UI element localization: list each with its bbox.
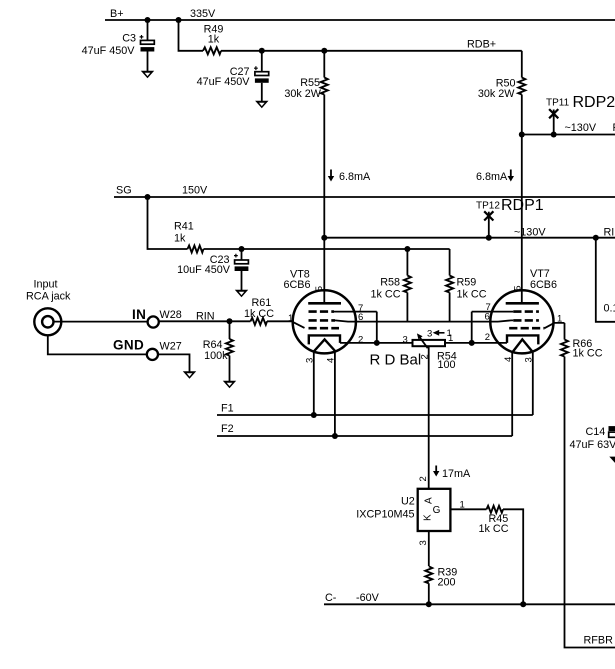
svg-text:1k CC: 1k CC (479, 523, 509, 535)
VT7 pin 7 wire (472, 311, 514, 313)
tube VT8 (293, 290, 356, 353)
svg-text:1k: 1k (208, 33, 220, 45)
VT8 heater (313, 339, 336, 352)
resistor R61 (251, 318, 268, 325)
VT8 grid row 1 (pin 7) (309, 310, 335, 313)
svg-text:3: 3 (523, 357, 534, 362)
junction node R45/C- (520, 601, 526, 607)
wire RIN to R64 (229, 321, 231, 339)
ground (C3) (141, 71, 154, 79)
VT7 heater (513, 339, 533, 352)
svg-text:SG: SG (116, 185, 132, 197)
junction node VT8 cathode (374, 340, 380, 346)
wire screen feed to R59 (449, 249, 451, 276)
svg-text:5: 5 (513, 286, 524, 291)
VT8 pin 6 wire (335, 320, 356, 321)
R54 wiper wire down (428, 347, 430, 489)
wire RDB+ to R55 (323, 51, 325, 78)
junction node VT8 plate/RDP1 (321, 235, 327, 241)
svg-text:TP12: TP12 (476, 201, 500, 212)
current arrow 6.8mA (left) (328, 170, 334, 182)
junction node R41/SG (145, 194, 151, 200)
resistor R39 (425, 566, 432, 583)
wire R66 down to RFBR (565, 357, 615, 648)
wire IN to R61 (159, 320, 251, 322)
junction node VT7 cathode (469, 340, 475, 346)
svg-text:RDP2: RDP2 (573, 94, 615, 111)
test point TP12 (484, 211, 493, 220)
svg-text:3: 3 (403, 335, 408, 346)
R54 rotation annotation 3 arrow 1 (427, 328, 452, 340)
resistor R66 (561, 340, 568, 357)
ground (C14, clipped) (609, 457, 615, 464)
junction node TP12/RDP1 (486, 235, 492, 241)
wire R64 to ground (229, 356, 231, 382)
junction node TP11/RDP2 (551, 132, 557, 138)
svg-text:W27: W27 (160, 341, 182, 353)
VT7 pin 1 exit (545, 323, 565, 328)
junction node R39/C- (426, 601, 432, 607)
svg-text:5: 5 (314, 286, 325, 291)
svg-text:TP11: TP11 (546, 98, 570, 109)
VT7 plate bar (506, 302, 539, 305)
capacitor C3 (140, 35, 155, 52)
VT8 pin 4 wire (334, 352, 336, 436)
svg-text:6CB6: 6CB6 (284, 279, 311, 291)
VT8 cathode (309, 335, 340, 344)
VT7 pin 2 wire (472, 342, 507, 344)
svg-text:6.8mA: 6.8mA (339, 171, 371, 183)
svg-text:R59: R59 (457, 277, 477, 289)
VT7 grid row 1 (pin 7) (513, 310, 539, 313)
resistor R66 wire from VT7 pin1 (564, 323, 566, 340)
resistor R59 (446, 276, 453, 293)
svg-text:1k CC: 1k CC (573, 348, 603, 360)
svg-text:17mA: 17mA (442, 468, 471, 480)
junction node C3/B+ (145, 17, 151, 23)
connector W28 (IN) (148, 316, 159, 327)
resistor R45 (487, 506, 504, 513)
svg-text:30k 2W: 30k 2W (284, 88, 321, 100)
wire RDB+ to R50 (521, 51, 523, 78)
junction node R49/B+ (176, 17, 182, 23)
VT7 grid row 2 (pin 6) (513, 319, 539, 322)
svg-text:RFBR: RFBR (584, 635, 614, 647)
tube VT7 (490, 290, 553, 353)
svg-text:3: 3 (418, 540, 429, 545)
VT8 pin 5 wire (plate) (323, 238, 325, 304)
capacitor C23 (234, 254, 248, 271)
svg-text:3: 3 (427, 329, 432, 340)
IC U2 body (418, 489, 451, 531)
VT7 pin 3 wire (532, 352, 534, 415)
potentiometer R54 body (413, 340, 446, 346)
wire SG to R41 (148, 197, 188, 249)
svg-text:1: 1 (288, 313, 293, 324)
svg-text:Input: Input (34, 279, 58, 291)
U2 pin 1 wire (gate) (450, 508, 486, 510)
svg-text:C3: C3 (122, 33, 136, 45)
svg-text:2: 2 (485, 332, 490, 343)
wire R49 to RDB+ rail (221, 50, 262, 52)
wire R50 to VT7 plate (521, 95, 523, 304)
svg-text:K: K (423, 514, 434, 521)
svg-text:47uF 450V: 47uF 450V (82, 45, 136, 57)
resistor R49 (203, 47, 221, 54)
capacitor C14 (clipped at edge) (609, 426, 615, 437)
resistor R58 (404, 276, 411, 293)
wire RDB+ to C27 (261, 51, 263, 72)
svg-text:R58: R58 (380, 277, 400, 289)
svg-text:R D Bal: R D Bal (370, 352, 422, 369)
svg-text:-60V: -60V (356, 592, 380, 604)
junction node R64/RIN (227, 318, 233, 324)
svg-text:1: 1 (447, 328, 452, 339)
wire RDP1 right branch down (596, 238, 615, 322)
U2 pin 3 wire (cathode) (428, 531, 430, 566)
test point TP11 (549, 109, 558, 118)
VT7 pin 7 drop wire (471, 312, 473, 343)
svg-text:6CB6: 6CB6 (530, 279, 557, 291)
ground (GND wire) (183, 371, 196, 379)
wire C23 top (241, 249, 243, 260)
RDP1 plate wire (324, 237, 615, 239)
wire screen feed to R58 (406, 249, 408, 276)
svg-text:C-: C- (325, 592, 337, 604)
ground (R64) (223, 381, 236, 389)
svg-text:1k CC: 1k CC (371, 289, 401, 301)
current arrow 17mA (433, 466, 439, 477)
svg-text:1: 1 (557, 313, 562, 324)
wire B+ to C3 (147, 20, 149, 40)
wire R54 to VT7 cathode node (445, 342, 472, 344)
VT8 grid row 3 (pin 1) (309, 327, 340, 330)
C- rail wire (324, 603, 615, 605)
VT8 pin 3 wire (313, 352, 315, 415)
svg-text:2: 2 (418, 476, 429, 481)
wire R59 to screen line (449, 293, 451, 322)
wire R39 to C- rail (428, 583, 430, 604)
ground (C27) (255, 101, 268, 109)
svg-text:335V: 335V (190, 8, 216, 20)
resistor R41 (188, 246, 204, 253)
connector W27 (GND) (147, 349, 158, 360)
wire TP12 to RDP1 line (488, 212, 490, 238)
svg-text:~130V: ~130V (565, 122, 597, 134)
svg-text:100k: 100k (204, 350, 228, 362)
VT7 cathode (507, 335, 538, 344)
svg-text:1: 1 (460, 500, 465, 511)
svg-text:GND: GND (113, 338, 144, 353)
junction node RDP1/right branch (593, 235, 599, 241)
SG rail wire (114, 196, 615, 198)
svg-text:IXCP10M45: IXCP10M45 (356, 509, 414, 521)
svg-text:C14: C14 (586, 426, 606, 438)
wire RCA shield to GND (48, 335, 147, 354)
svg-text:F1: F1 (221, 403, 234, 415)
VT8 grid row 2 (pin 6 screen) (309, 319, 336, 322)
screen feed wire C23 to R58/R59 (242, 248, 450, 250)
F2 wire (217, 435, 512, 437)
VT7 pin 6 wire (498, 320, 513, 321)
svg-text:B+: B+ (110, 8, 124, 20)
RDP2 node wire (522, 134, 615, 136)
VT8 pin 1 entry (293, 322, 305, 328)
svg-text:G: G (433, 505, 441, 516)
svg-text:F2: F2 (221, 423, 234, 435)
VT7 pin 4 wire (511, 352, 513, 436)
junction node R55/RDB+ (321, 48, 327, 54)
current arrow 6.8mA (right) (508, 170, 514, 182)
svg-text:3: 3 (304, 358, 315, 363)
RDB+ rail wire (262, 50, 522, 52)
wire C23 to ground (241, 271, 243, 290)
svg-text:4: 4 (326, 358, 337, 363)
svg-text:IN: IN (132, 307, 146, 322)
connector RCA jack (34, 308, 61, 335)
wire R58 to screen line (406, 293, 408, 322)
junction node F1/VT8 pin3 (311, 412, 317, 418)
svg-text:10uF 450V: 10uF 450V (177, 264, 231, 276)
capacitor C27 (254, 66, 269, 83)
svg-text:100: 100 (438, 359, 456, 371)
resistor R64 (226, 339, 233, 356)
svg-text:W28: W28 (160, 309, 182, 321)
svg-text:30k 2W: 30k 2W (478, 88, 515, 100)
junction node C27/RDB+ (259, 48, 265, 54)
svg-text:A: A (423, 497, 434, 504)
svg-text:1k CC: 1k CC (244, 308, 274, 320)
R54 wiper arrow (417, 333, 428, 348)
svg-text:~130V: ~130V (514, 227, 546, 239)
wire GND to ground (158, 354, 190, 371)
svg-text:4: 4 (503, 357, 514, 362)
junction node C23 (239, 246, 245, 252)
junction node F2/VT8 pin4 (332, 433, 338, 439)
resistor R50 (518, 78, 525, 95)
wire TP11 to RDP2 line (553, 110, 555, 135)
VT8 pin 2 wire to pot (340, 342, 413, 344)
svg-text:RI: RI (604, 227, 615, 239)
screen line VT8 pin6 to VT7 pin6 (356, 321, 498, 323)
svg-text:6.8mA: 6.8mA (476, 171, 508, 183)
wire R41 to C23 node (204, 248, 242, 250)
resistor R55 (321, 78, 328, 95)
wire B+ to R49 (179, 20, 204, 51)
svg-text:RDB+: RDB+ (467, 39, 496, 51)
wire C27 to ground (261, 83, 263, 101)
svg-text:U2: U2 (401, 496, 415, 508)
svg-text:RCA jack: RCA jack (26, 291, 71, 303)
VT8 pin 7 wire (334, 311, 377, 313)
wire R45 to C- rail (503, 509, 523, 604)
B+ rail wire (105, 19, 615, 21)
svg-text:RDP1: RDP1 (501, 197, 544, 214)
svg-text:1k: 1k (174, 233, 186, 245)
wire R61 to VT8 grid (267, 320, 293, 322)
svg-text:1k CC: 1k CC (457, 289, 487, 301)
svg-text:6: 6 (485, 312, 490, 323)
svg-text:R41: R41 (174, 221, 194, 233)
VT8 pin 7 drop wire (376, 312, 378, 343)
svg-text:150V: 150V (182, 185, 208, 197)
F1 wire (217, 414, 533, 416)
svg-text:47uF 63V: 47uF 63V (570, 439, 615, 451)
svg-text:200: 200 (438, 577, 456, 589)
ground (C23) (235, 290, 248, 298)
junction node R50/RDP2 (519, 132, 525, 138)
wire C3 to ground (147, 52, 149, 72)
VT7 grid row 3 (pin 1) (509, 327, 544, 330)
wire R55 to VT8 plate node (323, 95, 325, 238)
junction node R58/screen feed (404, 246, 410, 252)
svg-text:47uF 450V: 47uF 450V (197, 76, 251, 88)
wire RCA jack to IN (54, 321, 148, 323)
svg-text:0.1: 0.1 (604, 303, 615, 315)
svg-text:2: 2 (358, 334, 363, 345)
VT8 plate bar (308, 302, 341, 305)
